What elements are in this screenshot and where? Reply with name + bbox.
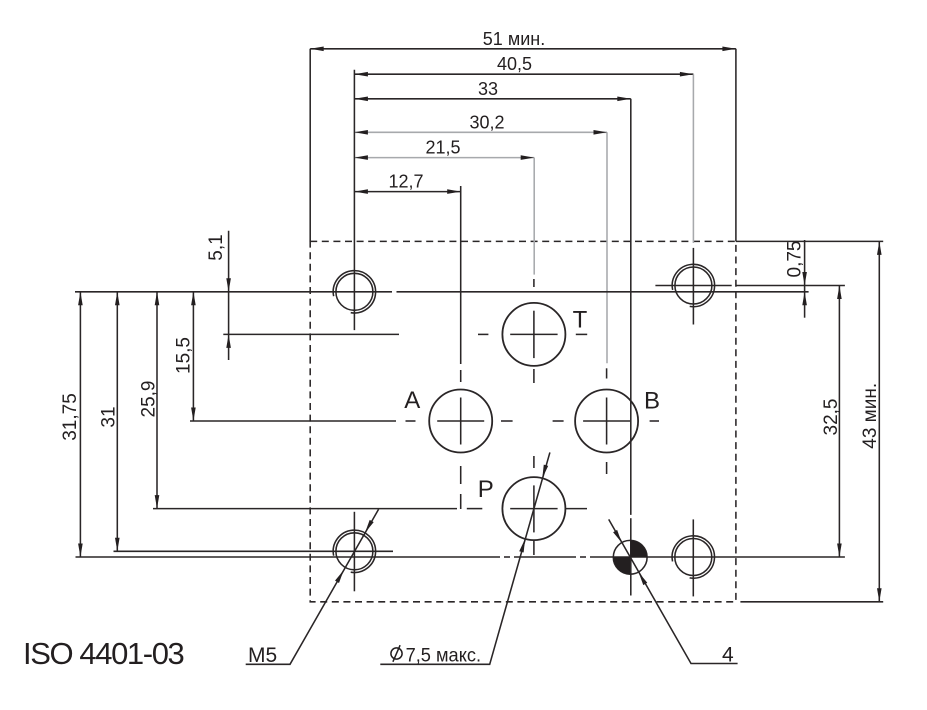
svg-text:33: 33 [478,79,498,99]
dim line 40,5 [354,73,693,75]
leader 4 [609,519,738,663]
arrows 15,5 [191,292,196,306]
extension line bottom edge to 43 dim [740,601,883,603]
row line P left part [153,508,457,510]
leader dia 7,5 [380,452,550,664]
svg-text:0,75: 0,75 [785,241,806,278]
arrows 5,1 outside [226,278,231,292]
row line y=557 bottom right [76,556,501,558]
port letters [404,307,660,504]
dash left of A [406,420,416,422]
dim line 5,1 vertical [228,231,230,360]
svg-text:51 мин.: 51 мин. [483,29,545,49]
hole bottom-left thread arc [333,530,375,572]
row line y=285.5 top-right hole [655,285,731,287]
hole bottom-right inner circle [675,539,712,576]
extension line 51 left [309,49,311,242]
arrowheads [78,47,882,602]
arrows 40,5 [354,72,368,77]
port T circle [502,303,565,366]
svg-text:P: P [478,476,494,503]
arrows leader M5 [335,569,346,583]
arrows 33 [354,97,368,102]
dash right of A [501,420,513,422]
port A circle [429,390,492,453]
arrows 31 [115,292,120,306]
svg-text:43 мин.: 43 мин. [860,383,881,449]
svg-text:B: B [644,388,660,415]
hole top-right inner circle [675,267,712,304]
arrows 31,75 [78,292,83,306]
hole top-right thread arc [672,264,714,306]
port A vertical cross [460,398,462,445]
svg-text:T: T [573,307,588,334]
hole bottom-right thread arc [672,536,714,578]
dash left of B [553,420,564,422]
svg-text:7,5 макс.: 7,5 макс. [406,646,482,667]
row line y=551.3 bottom-left hole [114,550,394,552]
port B vertical cross [606,398,608,445]
dash above P [533,456,535,468]
dash below A 2 [460,494,462,509]
row line y=291.8 top holes [75,291,392,293]
dim line 12,7 [354,191,460,193]
dash below P [533,541,535,555]
dash above B [606,368,608,378]
hole bottom-left vertical cross [353,512,355,592]
svg-text:21,5: 21,5 [425,138,460,158]
svg-text:31,75: 31,75 [60,393,81,441]
svg-text:40,5: 40,5 [497,54,532,74]
dim line 51 min [310,48,736,50]
arrows 25,9 [155,292,160,306]
dash below B [606,462,608,474]
port B horizontal cross [583,420,630,422]
locating pin filled quadrants [613,540,647,574]
dim line 0,75 vertical [804,240,806,318]
dim line 15,5 vertical [192,292,194,421]
hole bottom-left inner circle [336,533,373,570]
dash right of T [576,333,587,335]
dim line 33 [354,98,630,100]
dim line 32,5 vertical [838,286,840,558]
dash left of P [467,508,483,510]
dash below A 1 [460,466,462,484]
dimension texts top [60,29,881,449]
extension column 33 / locating pin x=630.8 [630,99,632,515]
locating pin circle [613,540,647,574]
arrows leader dia 7,5 [519,538,527,552]
svg-text:25,9: 25,9 [139,381,160,418]
dim line 25,9 vertical [156,292,158,509]
svg-text:30,2: 30,2 [469,112,504,132]
arrows 32,5 [837,286,842,300]
arrows 0,75 outside [802,272,807,286]
svg-text:M5: M5 [248,644,277,667]
extension column 21,5 grey x=534.2 [533,158,535,275]
dim line 21,5 grey [354,157,534,159]
arrows 43 min [877,241,882,255]
svg-text:5,1: 5,1 [206,234,227,260]
leader labels [248,644,734,668]
arrows 21,5 [354,155,368,160]
hole top-right vertical cross [692,248,694,325]
port A horizontal cross [437,420,484,422]
dash right of P [565,508,587,510]
dash left of T [478,333,488,335]
arrows leader 4 [613,530,624,544]
hole bottom-right vertical cross [692,519,694,596]
svg-text:A: A [404,387,420,414]
port B circle [575,390,638,453]
svg-text:4: 4 [722,644,734,667]
svg-text:ISO 4401-03: ISO 4401-03 [23,636,184,671]
hole top-left inner circle [336,273,373,310]
extension column left holes x=354.4 [353,70,355,330]
dash below T [533,369,535,383]
dash above A [460,370,462,382]
dim line 31,75 vertical [79,292,81,557]
arrows 51 [310,47,324,52]
dash above T [533,279,535,287]
port T vertical cross [533,311,535,358]
extension column 30,2 grey x=607 [606,132,608,363]
svg-text:32,5: 32,5 [821,399,842,436]
hole top-left thread arc [333,271,375,313]
extension column 40,5 grey x=693.4 [692,74,694,243]
dim line 31 vertical [116,292,118,552]
port P horizontal cross [510,508,557,510]
row line T left part [223,333,399,335]
dash right of B [650,420,659,422]
extension column 12,7 / port A x=460.7 [460,186,462,364]
port P circle [502,477,565,540]
svg-text:12,7: 12,7 [388,172,423,192]
extension line top edge to 43 dim [736,240,883,242]
port T horizontal cross [510,333,557,335]
dim line 30,2 grey [354,131,607,133]
row line A/B left part [190,420,396,422]
svg-text:15,5: 15,5 [174,337,195,374]
port P vertical cross [533,485,535,532]
dim line 43 min vertical [878,241,880,601]
leader M5 [246,509,379,664]
arrows 12,7 [354,189,368,194]
extension line 51 right [735,49,737,242]
diameter symbol [391,645,402,662]
plate outline dashed rectangle [310,241,736,601]
svg-text:31: 31 [99,406,120,427]
arrows 30,2 [354,130,368,135]
